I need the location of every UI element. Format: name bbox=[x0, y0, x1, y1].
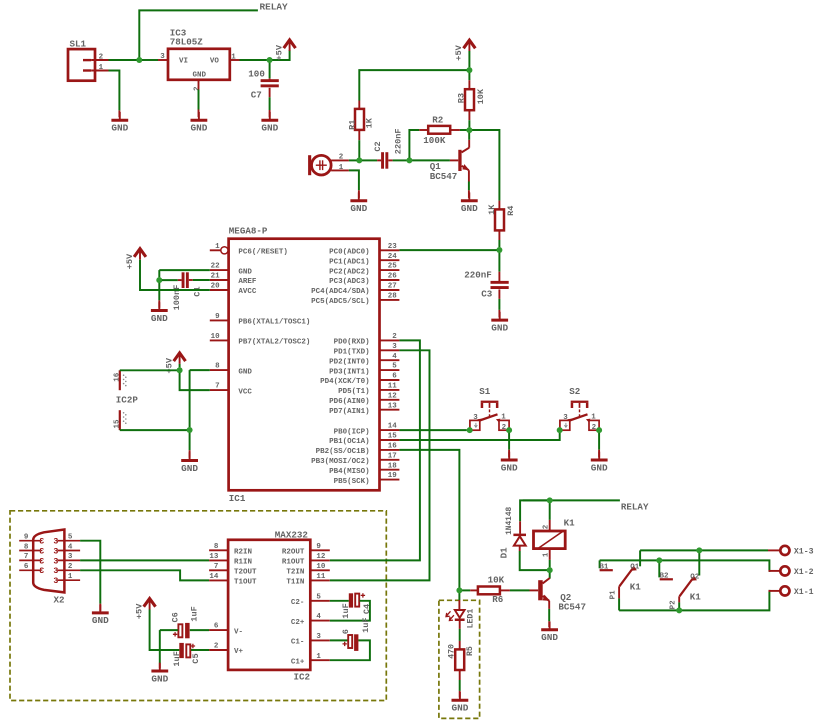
Q1 emitter bbox=[462, 166, 469, 170]
svg-text:1uF: 1uF bbox=[172, 651, 182, 666]
Q2 emitter bbox=[543, 596, 550, 601]
wire C9 to C1+ bbox=[330, 640, 370, 660]
wire P2 to common bbox=[678, 596, 680, 602]
pin 8 GND of IC1 bbox=[210, 369, 229, 371]
svg-text:14: 14 bbox=[388, 423, 398, 431]
svg-text:9: 9 bbox=[24, 534, 29, 542]
pin 3 of X2 bbox=[58, 559, 81, 561]
svg-text:2: 2 bbox=[392, 333, 397, 341]
svg-text:1N4148: 1N4148 bbox=[506, 507, 514, 535]
svg-text:7: 7 bbox=[214, 563, 219, 571]
pin 9 R2OUT of IC2 bbox=[310, 549, 330, 551]
svg-text:18: 18 bbox=[388, 462, 398, 470]
pin 9 of X2 bbox=[19, 540, 40, 542]
svg-text:PC2(ADC2): PC2(ADC2) bbox=[329, 268, 370, 276]
svg-text:6: 6 bbox=[24, 563, 29, 571]
svg-text:3: 3 bbox=[68, 553, 73, 561]
svg-text:C6: C6 bbox=[171, 612, 181, 622]
connector X2 shell bbox=[33, 530, 64, 593]
svg-text:IC2: IC2 bbox=[293, 671, 310, 682]
svg-text:220nF: 220nF bbox=[394, 128, 404, 154]
wire C7 to GND bbox=[269, 88, 271, 98]
svg-text:PC4(ADC4/SDA): PC4(ADC4/SDA) bbox=[311, 288, 370, 296]
wire IC2P-15 to node bbox=[120, 429, 187, 431]
pin 5 C2- of IC2 bbox=[310, 600, 330, 602]
svg-text:PD6(AIN0): PD6(AIN0) bbox=[329, 398, 370, 406]
pin 13 PD7(AIN1) of IC1 bbox=[380, 409, 400, 411]
svg-text:R3: R3 bbox=[457, 93, 467, 103]
svg-text:26: 26 bbox=[388, 273, 398, 281]
supply symbol +5V (amp) bbox=[464, 40, 476, 48]
svg-text:R1OUT: R1OUT bbox=[282, 559, 305, 567]
wire node to +5V arrow bbox=[272, 50, 289, 60]
svg-text:7: 7 bbox=[215, 383, 220, 391]
svg-text:C1-: C1- bbox=[291, 639, 305, 647]
capacitor C2 plates bbox=[381, 152, 384, 169]
wire GND trunk upper bbox=[158, 270, 160, 277]
svg-text:100: 100 bbox=[248, 68, 265, 79]
svg-text:4: 4 bbox=[316, 613, 321, 621]
wire X2-3 to R1IN bbox=[80, 559, 209, 561]
pin16 tilde marks bbox=[123, 374, 125, 376]
wire S1 to GND bbox=[508, 433, 510, 450]
ground under S2 bbox=[598, 452, 600, 461]
svg-text:2: 2 bbox=[339, 154, 344, 162]
capacitor C4 plates bbox=[349, 593, 353, 607]
node junction B2 branch bbox=[656, 557, 662, 563]
pin 14 T1OUT of IC2 bbox=[209, 579, 228, 581]
pin 11 T1IN of IC2 bbox=[310, 579, 330, 581]
svg-text:AVCC: AVCC bbox=[238, 288, 257, 296]
node junction coil/D1/collector bbox=[547, 567, 553, 573]
node S2 pin2 bbox=[596, 427, 602, 433]
svg-text:7: 7 bbox=[24, 553, 29, 561]
relay contact K1a lever bbox=[619, 568, 633, 587]
switch S2 right contact box bbox=[589, 420, 599, 430]
wire X2-2 to T1OUT bbox=[80, 570, 209, 580]
wire R1 to mic node bbox=[358, 130, 360, 140]
wire +5V arrow to node bbox=[468, 51, 470, 67]
svg-text:5: 5 bbox=[68, 534, 73, 542]
wire IC2P-16 to node bbox=[120, 369, 177, 371]
svg-text:GND: GND bbox=[238, 268, 252, 276]
svg-text:+5V: +5V bbox=[125, 253, 135, 269]
svg-text:15: 15 bbox=[114, 419, 122, 429]
switch S1 inner mark bbox=[474, 423, 477, 427]
pin 8 R2IN of IC2 bbox=[209, 549, 228, 551]
wire net RELAY (bottom run) bbox=[523, 499, 620, 501]
ground under R5 bbox=[459, 692, 461, 701]
svg-text:4: 4 bbox=[68, 543, 73, 551]
dashed boundary box LED bbox=[439, 600, 480, 718]
svg-text:1K: 1K bbox=[365, 117, 375, 128]
svg-text:3: 3 bbox=[53, 557, 58, 566]
svg-text:5: 5 bbox=[392, 363, 397, 371]
resistor R2 body bbox=[428, 126, 450, 134]
resistor R5 body bbox=[455, 649, 464, 670]
pin 1 C1+ of IC2 bbox=[310, 659, 330, 661]
wire R5 to GND bbox=[459, 670, 461, 680]
node junction C2/R2/base bbox=[406, 157, 412, 163]
switch S2 actuator bracket bbox=[571, 401, 589, 403]
wire C2- to C4 bbox=[330, 600, 349, 602]
supply symbol +5V (IC3 output) bbox=[284, 40, 296, 48]
wire common row to X1-1 bbox=[619, 591, 769, 611]
pin 26 PC3(ADC3) of IC1 bbox=[380, 279, 400, 281]
svg-text:GND: GND bbox=[350, 203, 367, 214]
pin 10 PB7(XTAL2/TOSC2) of IC1 bbox=[210, 339, 229, 341]
pin 22 GND of IC1 bbox=[210, 269, 229, 271]
pin 21 AREF of IC1 bbox=[210, 279, 229, 281]
svg-text:8: 8 bbox=[214, 543, 219, 551]
switch S2 inner mark bbox=[564, 423, 567, 427]
wire trunk to GND symbol bbox=[158, 283, 160, 301]
pin 7 T2OUT of IC2 bbox=[209, 569, 228, 571]
svg-text:BC547: BC547 bbox=[558, 602, 586, 613]
pin 8 of X2 bbox=[19, 550, 40, 552]
svg-text:V-: V- bbox=[234, 628, 243, 636]
svg-text:R2IN: R2IN bbox=[234, 549, 252, 557]
svg-text:10K: 10K bbox=[488, 575, 505, 586]
wire C1- to C9 bbox=[330, 639, 348, 641]
svg-text:R1: R1 bbox=[347, 120, 357, 130]
ground under mic bbox=[358, 192, 360, 201]
svg-text:6: 6 bbox=[214, 623, 219, 631]
capacitor C1 plates bbox=[182, 272, 185, 288]
svg-text:10: 10 bbox=[316, 563, 326, 571]
pin 6 V- of IC2 bbox=[209, 629, 228, 631]
svg-text:T1OUT: T1OUT bbox=[234, 579, 257, 587]
wire O2 branch bbox=[698, 553, 700, 575]
pin 12 PD6(AIN0) of IC1 bbox=[380, 399, 400, 401]
capacitor C9 plates bbox=[348, 635, 352, 648]
svg-text:2: 2 bbox=[99, 53, 104, 61]
wire node to R3 bbox=[468, 73, 470, 80]
node S2 pin3 bbox=[557, 427, 563, 433]
svg-text:T1IN: T1IN bbox=[286, 579, 304, 587]
wire node up to R2 bbox=[409, 130, 419, 158]
terminal X1-3 bbox=[780, 546, 789, 555]
svg-text:P1: P1 bbox=[610, 590, 618, 600]
svg-text:S1: S1 bbox=[479, 386, 491, 397]
pin B1 of contact K1a bbox=[600, 569, 613, 571]
pin 28 PC5(ADC5/SCL) of IC1 bbox=[380, 299, 400, 301]
supply symbol +5V (AVCC) bbox=[134, 249, 146, 257]
wire node to R4 bbox=[472, 130, 499, 201]
pin 7 VCC of IC1 bbox=[210, 389, 229, 391]
svg-text:3: 3 bbox=[160, 53, 165, 61]
resistor R3 body bbox=[465, 89, 474, 110]
svg-text:24: 24 bbox=[388, 253, 398, 261]
terminal X1-1 bbox=[780, 586, 789, 595]
svg-text:D1: D1 bbox=[499, 547, 510, 559]
wire SL1-1 to GND bbox=[109, 71, 120, 111]
wire PB1 to S2 bbox=[399, 433, 559, 440]
svg-text:X1-2: X1-2 bbox=[794, 568, 814, 577]
svg-text:470: 470 bbox=[448, 644, 457, 659]
ground under C7 bbox=[269, 112, 271, 121]
wire T1IN to PD1 bbox=[330, 350, 430, 580]
svg-text:11: 11 bbox=[388, 383, 398, 391]
svg-text:PB6(XTAL1/TOSC1): PB6(XTAL1/TOSC1) bbox=[238, 319, 310, 327]
svg-text:O2: O2 bbox=[690, 573, 700, 581]
capacitor C6 plates bbox=[178, 624, 182, 637]
pin 1 wire of IC3 to +5V node bbox=[230, 59, 240, 61]
svg-text:PB4(MISO): PB4(MISO) bbox=[329, 468, 370, 476]
pin B2 of contact K1b bbox=[660, 578, 673, 580]
wire node to LED1 bbox=[458, 593, 460, 600]
wire SL1-2 to node bbox=[109, 59, 137, 61]
svg-text:AREF: AREF bbox=[238, 278, 257, 286]
wire +5V to C5 bbox=[150, 610, 180, 651]
switch S1 actuator bracket bbox=[481, 401, 499, 403]
pin 15 PB1(OC1A) of IC1 bbox=[380, 439, 400, 441]
svg-text:28: 28 bbox=[388, 293, 398, 301]
pin 7 of X2 bbox=[19, 559, 40, 561]
svg-text:20: 20 bbox=[211, 283, 221, 291]
wire to GND below IC2P bbox=[189, 433, 191, 451]
wire mic-1 to GND bbox=[349, 170, 359, 190]
svg-text:GND: GND bbox=[451, 703, 468, 714]
svg-text:GND: GND bbox=[501, 462, 518, 473]
pin 14 PB0(ICP) of IC1 bbox=[380, 429, 400, 431]
pin 25 PC2(ADC2) of IC1 bbox=[380, 269, 400, 271]
svg-text:100nF: 100nF bbox=[172, 285, 182, 311]
node junction mic/C2 bbox=[356, 157, 362, 163]
pin 2 of X2 bbox=[58, 569, 81, 571]
svg-text:3: 3 bbox=[39, 557, 44, 566]
node junction R6/LED bbox=[456, 587, 462, 593]
svg-text:R4: R4 bbox=[506, 206, 516, 216]
svg-text:GND: GND bbox=[92, 615, 109, 626]
svg-text:15: 15 bbox=[388, 433, 398, 441]
svg-text:3: 3 bbox=[39, 538, 44, 547]
svg-text:P2: P2 bbox=[670, 600, 678, 610]
svg-text:VCC: VCC bbox=[238, 388, 252, 396]
svg-text:X1-1: X1-1 bbox=[794, 588, 814, 597]
svg-text:T2OUT: T2OUT bbox=[234, 569, 257, 577]
pin 1 of X2 bbox=[58, 579, 81, 581]
svg-text:GND: GND bbox=[193, 71, 207, 79]
svg-text:RELAY: RELAY bbox=[260, 1, 289, 12]
microphone MIC body bbox=[312, 155, 332, 175]
pin 4 of X2 bbox=[58, 550, 81, 552]
ground under IC2P bbox=[189, 452, 191, 461]
wire C1 to AREF pin bbox=[189, 279, 193, 281]
wire PB0 to S1 bbox=[399, 429, 466, 431]
svg-text:LED1: LED1 bbox=[466, 609, 475, 629]
pin 2 of mic bbox=[331, 159, 349, 161]
wire +5V rail to R1 bbox=[359, 70, 466, 100]
svg-text:10: 10 bbox=[211, 333, 221, 341]
svg-text:C1+: C1+ bbox=[291, 658, 305, 666]
ground under C3 bbox=[499, 312, 501, 321]
wire net RELAY (top run) bbox=[139, 10, 258, 60]
svg-text:4: 4 bbox=[392, 353, 397, 361]
svg-text:VO: VO bbox=[210, 57, 220, 65]
pin 20 AVCC of IC1 bbox=[210, 289, 229, 291]
svg-text:3: 3 bbox=[39, 567, 44, 576]
pin 1 PC6(/RESET) of IC1 bbox=[210, 249, 221, 251]
ground under S1 bbox=[508, 452, 510, 461]
svg-text:PD2(INT0): PD2(INT0) bbox=[329, 358, 370, 366]
wire node to IC3 VI bbox=[142, 59, 158, 61]
svg-text:1: 1 bbox=[99, 64, 104, 72]
node junction relay coil top bbox=[547, 497, 553, 503]
svg-text:3: 3 bbox=[53, 547, 58, 556]
capacitor C5 plates bbox=[179, 643, 184, 658]
svg-text:12: 12 bbox=[316, 553, 326, 561]
svg-text:10K: 10K bbox=[476, 88, 486, 104]
svg-text:9: 9 bbox=[215, 313, 220, 321]
svg-text:GND: GND bbox=[491, 322, 508, 333]
svg-text:R2: R2 bbox=[432, 115, 443, 126]
svg-text:PC0(ADC0): PC0(ADC0) bbox=[329, 249, 370, 257]
pin 10 T2IN of IC2 bbox=[310, 569, 330, 571]
svg-text:BC547: BC547 bbox=[430, 171, 458, 182]
svg-text:+5V: +5V bbox=[134, 603, 144, 619]
svg-text:R1IN: R1IN bbox=[234, 559, 252, 567]
svg-text:RELAY: RELAY bbox=[621, 502, 649, 513]
wire pin22 GND row bbox=[159, 269, 210, 271]
node junction collector/R2/R3/R4 bbox=[466, 127, 472, 133]
svg-text:100K: 100K bbox=[423, 135, 446, 146]
svg-text:22: 22 bbox=[211, 263, 221, 271]
wire node to C7 bbox=[269, 63, 271, 79]
svg-text:PD4(XCK/T0): PD4(XCK/T0) bbox=[320, 378, 370, 386]
svg-text:3: 3 bbox=[53, 567, 58, 576]
switch S2 contact wedges bbox=[567, 419, 572, 422]
pin 3 C1- of IC2 bbox=[310, 639, 330, 641]
svg-text:C2+: C2+ bbox=[291, 619, 305, 627]
svg-text:GND: GND bbox=[151, 313, 168, 324]
pin 27 PC4(ADC4/SDA) of IC1 bbox=[380, 289, 400, 291]
svg-text:GND: GND bbox=[181, 463, 198, 474]
wire net X1-3 bbox=[640, 549, 768, 551]
svg-text:13: 13 bbox=[388, 402, 398, 410]
resistor R6 body bbox=[478, 587, 500, 595]
svg-text:12: 12 bbox=[388, 392, 398, 400]
power pin 16 of IC2P bbox=[119, 370, 121, 390]
power pin 15 of IC2P bbox=[119, 410, 121, 430]
svg-text:23: 23 bbox=[388, 243, 398, 251]
supply symbol +5V (IC2P) bbox=[174, 353, 186, 361]
node S1 pin3 bbox=[467, 427, 473, 433]
svg-text:11: 11 bbox=[316, 573, 326, 581]
svg-text:1: 1 bbox=[316, 653, 321, 661]
svg-text:V+: V+ bbox=[234, 648, 244, 656]
ground under C1 trunk bbox=[158, 302, 160, 311]
relay coil K1 body bbox=[534, 531, 566, 549]
svg-text:IC1: IC1 bbox=[229, 493, 246, 504]
svg-text:PD0(RXD): PD0(RXD) bbox=[334, 339, 370, 347]
wire +5V arrow to VCC node bbox=[179, 364, 181, 368]
pin 6 of X2 bbox=[19, 569, 40, 571]
svg-text:19: 19 bbox=[388, 472, 398, 480]
pin 17 PB3(MOSI/OC2) of IC1 bbox=[380, 459, 400, 461]
svg-text:3: 3 bbox=[39, 547, 44, 556]
pin 11 PD5(T1) of IC1 bbox=[380, 389, 400, 391]
switch S2 left contact box bbox=[560, 420, 570, 430]
svg-text:1uF: 1uF bbox=[341, 603, 351, 618]
svg-text:PD5(T1): PD5(T1) bbox=[338, 388, 370, 396]
svg-text:PB7(XTAL2/TOSC2): PB7(XTAL2/TOSC2) bbox=[238, 339, 310, 347]
wire X2-5 to GND bbox=[80, 541, 100, 604]
svg-text:VI: VI bbox=[179, 57, 188, 65]
ground under SL1 bbox=[119, 112, 121, 121]
svg-text:5: 5 bbox=[316, 593, 321, 601]
svg-text:GND: GND bbox=[190, 123, 207, 134]
ground under Q1 bbox=[468, 192, 470, 201]
switch S2 lever bbox=[570, 414, 588, 420]
svg-text:K1: K1 bbox=[630, 582, 642, 593]
svg-text:GND: GND bbox=[111, 123, 128, 134]
svg-text:2: 2 bbox=[214, 643, 219, 651]
LED LED1 bbox=[455, 610, 465, 618]
dashed boundary box RS232 bbox=[10, 511, 386, 701]
svg-text:1K: 1K bbox=[487, 204, 497, 215]
svg-text:8: 8 bbox=[215, 363, 220, 371]
svg-text:+5V: +5V bbox=[274, 44, 284, 60]
wire R1OUT to PD0 bbox=[330, 340, 420, 560]
svg-text:MEGA8-P: MEGA8-P bbox=[229, 226, 268, 237]
pin 2 of SL1 bbox=[91, 59, 108, 61]
svg-text:17: 17 bbox=[388, 452, 397, 460]
svg-text:S2: S2 bbox=[569, 386, 580, 397]
svg-text:C3: C3 bbox=[481, 289, 493, 300]
relay contact K1b lever bbox=[680, 578, 694, 597]
svg-text:3: 3 bbox=[53, 538, 58, 547]
svg-text:PD1(TXD): PD1(TXD) bbox=[334, 349, 370, 357]
wire mic-2 to node bbox=[349, 159, 357, 161]
svg-text:C7: C7 bbox=[251, 89, 262, 100]
wire +5V to AVCC pin bbox=[140, 260, 210, 290]
switch S1 lever bbox=[480, 414, 498, 420]
pin 16 PB2(SS/OC1B) of IC1 bbox=[380, 449, 400, 451]
ground under X2 bbox=[99, 605, 101, 614]
wire pin8 GND row bbox=[190, 369, 210, 371]
svg-text:2: 2 bbox=[592, 424, 597, 432]
svg-text:PD7(AIN1): PD7(AIN1) bbox=[329, 408, 370, 416]
IC IC1 MEGA8-P body bbox=[229, 239, 380, 491]
svg-text:GND: GND bbox=[591, 462, 608, 473]
svg-text:PC3(ADC3): PC3(ADC3) bbox=[329, 278, 370, 286]
node junction PC0/R4/C3 bbox=[496, 247, 502, 253]
svg-text:GND: GND bbox=[151, 673, 168, 684]
diode D1 bbox=[513, 534, 526, 537]
wire B1 branch bbox=[599, 560, 601, 568]
svg-text:6: 6 bbox=[341, 629, 351, 634]
svg-text:14: 14 bbox=[209, 573, 219, 581]
svg-text:3: 3 bbox=[316, 633, 321, 641]
pin 23 PC0(ADC0) of IC1 bbox=[380, 249, 400, 251]
ground under MAX232 caps bbox=[159, 663, 161, 672]
svg-text:X1-3: X1-3 bbox=[794, 548, 814, 557]
svg-text:IC2P: IC2P bbox=[116, 394, 139, 405]
svg-text:PC1(ADC1): PC1(ADC1) bbox=[329, 258, 370, 266]
Q1 collector bbox=[462, 148, 470, 153]
pin 2 PD0(RXD) of IC1 bbox=[380, 339, 400, 341]
svg-text:R2OUT: R2OUT bbox=[282, 549, 305, 557]
IC IC2 MAX232 body bbox=[228, 540, 310, 670]
svg-text:21: 21 bbox=[211, 273, 221, 281]
svg-text:PC5(ADC5/SCL): PC5(ADC5/SCL) bbox=[311, 298, 370, 306]
switch S1 dashed link bbox=[489, 409, 491, 412]
supply symbol +5V (MAX232) bbox=[144, 599, 156, 607]
svg-text:220nF: 220nF bbox=[464, 270, 492, 281]
wire R6 to Q2 base bbox=[500, 589, 510, 591]
pin 2 V+ of IC2 bbox=[209, 649, 228, 651]
